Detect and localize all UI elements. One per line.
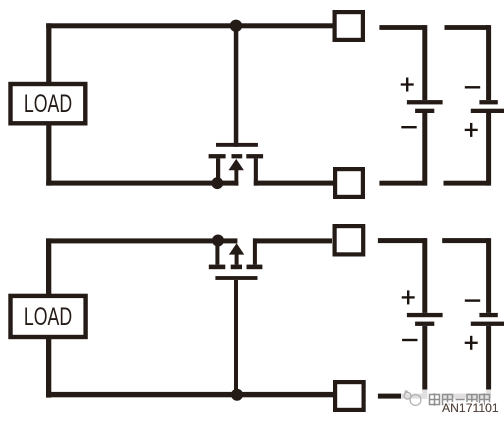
BT1 bottom wire: [379, 181, 426, 186]
BT4 lower vertical: [486, 326, 491, 399]
node: source junction dot on top rail (bottom circuit): [212, 235, 224, 247]
load box LOAD (top circuit): [11, 84, 86, 123]
Q2 body arrow (points up): [229, 243, 244, 254]
BT2 lower vertical: [486, 113, 491, 186]
svg-text:LOAD: LOAD: [24, 90, 72, 118]
BT2 long plate (+): [471, 109, 504, 113]
label: + sign of BT2: [465, 123, 478, 137]
label: + sign of BT3: [402, 290, 415, 304]
transistor Q1 P-channel MOSFET (top circuit): [209, 26, 264, 186]
BT4 bottom wire: [442, 394, 488, 399]
Q2 drain lead vertical: [253, 238, 257, 264]
Q1 gate bar: [216, 143, 258, 147]
BT3 top wire: [378, 238, 426, 243]
BT3 short plate (-): [415, 322, 434, 326]
Q2 source plate (left): [209, 265, 226, 270]
battery BT1 (top circuit, correct polarity): [379, 25, 442, 186]
battery BT4 (bottom circuit, reversed polarity): [442, 238, 504, 399]
BT2 short plate (-): [479, 100, 497, 104]
wire: left vertical rail through LOAD (top circuit): [46, 23, 51, 185]
BT1 lower vertical: [422, 113, 427, 186]
Q2 source lead vertical: [215, 241, 219, 265]
Q1 body lead vertical: [234, 169, 238, 186]
node: source junction dot on bottom rail (top circuit): [211, 177, 223, 189]
battery BT2 (top circuit, reversed polarity): [444, 25, 504, 186]
BT4 long plate (+): [471, 322, 504, 326]
watermark white halo: [401, 390, 504, 410]
svg-text:AN171101: AN171101: [442, 401, 499, 415]
BT1 long plate (+): [407, 100, 443, 104]
wire: bottom rail (bottom circuit): [46, 392, 333, 397]
BT3 upper vertical: [422, 238, 427, 313]
BT2 top wire: [445, 25, 490, 30]
BT1 top wire: [379, 25, 425, 30]
Q1 drain plate (right): [246, 154, 263, 158]
Q2 gate bar: [215, 276, 257, 280]
Q1 drain lead vertical: [254, 158, 258, 185]
BT4 upper vertical: [486, 238, 491, 313]
wire: top rail left segment (bottom circuit): [46, 238, 237, 243]
node: gate junction dot on bottom rail (bottom circuit): [231, 389, 243, 401]
Q2 body lead vertical: [235, 254, 239, 265]
wire: top rail (top circuit): [46, 23, 333, 28]
Q2 body plate (middle): [231, 265, 242, 270]
svg-text:LOAD: LOAD: [24, 303, 72, 331]
BT2 bottom wire: [444, 181, 491, 186]
Q1 gate lead vertical: [234, 26, 239, 147]
connector terminal square J4 (bottom circuit, bottom): [333, 380, 366, 412]
watermark text: dian lu yi dian tong (grey glyph blocks): [430, 393, 490, 406]
BT4 short plate (-): [479, 313, 497, 317]
Q1 body arrow (points up): [229, 159, 244, 170]
BT1 short plate (-): [415, 109, 434, 113]
wire: left vertical rail through LOAD (bottom circuit): [46, 238, 51, 397]
BT3 lower vertical: [422, 326, 427, 399]
Q1 source plate (left): [209, 154, 226, 158]
wire: top rail right segment to connector (bottom circuit): [253, 238, 332, 243]
label: - sign of BT4: [465, 299, 480, 301]
BT3 long plate (+): [407, 313, 443, 317]
BT1 upper vertical: [422, 25, 427, 100]
Q2 drain plate (right): [247, 265, 263, 270]
label: + sign of BT1: [401, 78, 414, 92]
connector terminal square J2 (top circuit, bottom): [333, 167, 365, 199]
Q1 body plate (middle): [232, 154, 243, 158]
load box LOAD (bottom circuit): [11, 296, 86, 337]
Q2 gate lead vertical: [234, 280, 238, 398]
label: + sign of BT4: [465, 336, 478, 350]
wire: bottom rail right segment to connector (top circuit): [254, 181, 333, 186]
label: - sign of BT1: [401, 126, 416, 128]
node: gate junction dot on top rail (top circuit): [230, 20, 242, 32]
transistor Q2 P-channel MOSFET (bottom circuit, mirrored): [209, 238, 263, 397]
Q1 source lead vertical: [216, 158, 220, 185]
watermark logo (grey cat icon): [404, 391, 421, 406]
connector terminal square J1 (top circuit, top): [333, 10, 366, 42]
BT2 upper vertical: [486, 25, 491, 100]
battery BT3 (bottom circuit, correct polarity): [378, 238, 443, 399]
BT3 bottom wire: [378, 394, 426, 399]
label: - sign of BT3: [402, 339, 417, 341]
label: - sign of BT2: [465, 86, 480, 88]
wire: bottom rail left segment (top circuit): [46, 181, 238, 186]
BT4 top wire: [442, 238, 488, 243]
connector terminal square J3 (bottom circuit, top): [333, 224, 366, 257]
